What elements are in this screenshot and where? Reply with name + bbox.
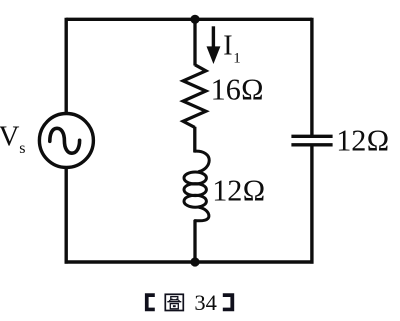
wire left upper <box>64 18 67 114</box>
caption left lenticular bracket <box>145 293 155 311</box>
capacitor C top plate <box>291 135 332 138</box>
node junction dot bottom <box>190 257 199 266</box>
wire bottom <box>65 260 314 263</box>
caption character tu (figure) outer box <box>165 294 183 310</box>
svg-text:I: I <box>223 31 232 62</box>
caption character tu top small box <box>171 297 178 300</box>
svg-text:12Ω: 12Ω <box>336 123 389 157</box>
current arrow I1 head <box>207 46 221 64</box>
caption right lenticular bracket <box>223 293 234 311</box>
wire middle branch top lead <box>193 19 196 65</box>
caption character tu diagonal ticks <box>169 299 180 301</box>
inductor L top hook <box>195 151 209 171</box>
capacitor C bottom plate <box>291 143 332 146</box>
svg-text:1: 1 <box>233 51 241 67</box>
wire top <box>66 18 312 21</box>
inductor L bottom hook <box>195 207 209 220</box>
svg-text:V: V <box>0 120 20 152</box>
svg-text:34: 34 <box>194 290 217 315</box>
wire middle branch bottom lead <box>193 220 196 262</box>
caption character tu lower box dot <box>173 305 176 307</box>
wire left lower <box>64 168 67 264</box>
node junction dot top <box>190 15 199 24</box>
wire between resistor and inductor <box>193 127 196 153</box>
inductor L loop 2 <box>184 184 206 196</box>
svg-text:12Ω: 12Ω <box>212 174 265 208</box>
caption character tu middle bar <box>167 301 181 303</box>
wire right lower <box>310 145 313 264</box>
caption character tu lower box <box>170 304 178 309</box>
resistor R 16ohm zigzag <box>183 65 206 128</box>
svg-text:s: s <box>19 140 25 157</box>
wire right upper <box>310 18 313 137</box>
inductor L loop 3 <box>184 195 206 207</box>
current arrow I1 shaft <box>212 26 215 49</box>
inductor L loop 1 <box>184 172 206 184</box>
svg-text:16Ω: 16Ω <box>211 72 264 106</box>
AC source sine wave <box>50 128 80 153</box>
AC voltage source Vs circle <box>39 114 93 168</box>
